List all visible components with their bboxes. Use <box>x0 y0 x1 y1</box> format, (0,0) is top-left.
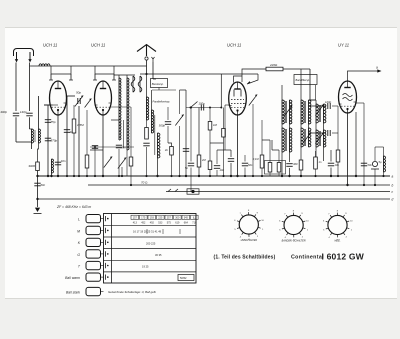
wire x67 drop <box>66 96 68 176</box>
grid wire y105 <box>44 104 50 106</box>
wire from 140p to coil <box>29 117 31 129</box>
bus line b <box>88 184 390 186</box>
switch contact ticks in table column <box>105 216 107 221</box>
tube3 cathode down <box>237 115 239 176</box>
tube1 right pin wire y96 <box>66 95 75 97</box>
capacitor 50n tube3 <box>242 163 248 166</box>
wire x95 down <box>94 147 96 176</box>
tube1 frame right tick <box>69 79 73 81</box>
tube1 frame left drop <box>50 74 52 80</box>
wire x217 down <box>216 170 218 176</box>
band switch lever <box>190 102 198 109</box>
wire y147 right link <box>375 146 384 148</box>
resistor 50k <box>85 155 89 168</box>
wire cap upper right <box>332 105 338 107</box>
junction x186 bus <box>185 175 187 177</box>
antenna plug contacts <box>145 57 155 62</box>
osc top link <box>114 74 135 76</box>
svg-text:10n: 10n <box>61 159 66 163</box>
junction tube1 bus <box>57 175 59 177</box>
wire resistor to bus <box>37 171 39 177</box>
link y150 left <box>90 149 103 151</box>
wire x245 down <box>244 168 246 177</box>
svg-text:1M: 1M <box>213 123 218 127</box>
tube3 triode anode wire <box>234 76 243 83</box>
junction bus x37 <box>36 175 38 177</box>
wire winding5 top <box>315 100 317 104</box>
wire x322 dn <box>330 168 332 177</box>
svg-text:Gezeichnete Schalterlage: U, B: Gezeichnete Schalterlage: U, Ball gelb <box>108 290 156 294</box>
tube U1 UCH11 <box>50 81 67 115</box>
wire x221 from rail <box>220 74 222 108</box>
svg-text:Ball stark: Ball stark <box>66 290 80 294</box>
svg-text:G: G <box>77 253 80 257</box>
svg-text:500p: 500p <box>159 124 166 128</box>
svg-text:UCH 11: UCH 11 <box>227 43 241 48</box>
capacitor 10n tube1 cathode <box>55 162 61 165</box>
tube1 frame right drop <box>70 74 72 80</box>
wire L3 top <box>118 75 120 78</box>
tube3 anode to 220 resistor <box>242 69 266 82</box>
coil core line <box>34 130 36 142</box>
wire x338 v <box>337 133 339 150</box>
coupling coil loops right <box>138 76 142 92</box>
junction x199 bus <box>198 175 200 177</box>
IF transformer winding 6 <box>316 130 326 147</box>
tube2 pin stub y120 <box>111 119 119 121</box>
wire x315 up <box>315 85 317 100</box>
wire x210 v2 <box>209 130 211 161</box>
wire cap upper left <box>309 105 327 107</box>
svg-text:70 Ω: 70 Ω <box>141 181 148 185</box>
svg-text:300: 300 <box>175 217 180 220</box>
wire osc coil down <box>118 149 120 176</box>
agc link y150 <box>217 149 231 151</box>
tube U2 UCH11 <box>95 81 112 115</box>
resistor damping <box>145 128 149 140</box>
rotary switch HEIZ. <box>326 213 350 238</box>
wire x210 v1 <box>209 108 211 122</box>
electrolytic capacitor 5u <box>371 161 379 169</box>
wire x131 down <box>130 107 132 185</box>
svg-text:345: 345 <box>184 217 189 220</box>
wire x223 down <box>223 137 225 176</box>
svg-text:575: 575 <box>167 221 172 224</box>
wire x322 up <box>330 150 332 162</box>
tube2 frame left tick <box>93 79 97 81</box>
svg-text:400p: 400p <box>0 110 7 114</box>
wire x122 down <box>121 167 123 176</box>
svg-text:619: 619 <box>175 221 180 224</box>
wire x179 up <box>179 90 181 114</box>
junction x231 bus <box>230 175 232 177</box>
push button Ball warm <box>86 273 101 281</box>
push button K <box>86 238 101 246</box>
RF choke on rail <box>39 64 50 66</box>
wire x223 up <box>223 108 225 129</box>
resistor osc grid <box>129 157 133 166</box>
row2 tick b <box>162 229 164 234</box>
wire x253 down <box>252 104 254 176</box>
button Ball warm link wire <box>101 276 104 278</box>
junction x253 bus <box>252 175 254 177</box>
wire x291 down <box>289 152 291 162</box>
junction tube2 bus <box>102 175 104 177</box>
junction x95 y147 <box>94 146 96 148</box>
svg-text:Parallelkreissp.: Parallelkreissp. <box>153 100 171 104</box>
wire choke up <box>383 147 385 156</box>
wire x262 up <box>261 120 263 155</box>
capacitor 400p <box>13 113 19 116</box>
svg-text:(L): (L) <box>193 217 196 220</box>
capacitor IF foot <box>286 164 292 167</box>
wire IF3 top <box>300 69 302 100</box>
junction x315 bus <box>314 175 316 177</box>
tube4 right pin wire <box>357 102 365 104</box>
capacitor 100p switch <box>201 105 203 111</box>
IF trimmer 2 <box>302 134 310 145</box>
junction x221 y107 <box>220 107 222 109</box>
svg-text:a: a <box>392 175 394 179</box>
junction x122 bus <box>121 175 123 177</box>
table row line 1 <box>104 224 197 226</box>
svg-text:M: M <box>77 229 80 233</box>
switch contacts on bus c <box>168 189 178 192</box>
junction x291 bus <box>288 175 290 177</box>
wire x146 down <box>146 147 148 176</box>
svg-text:5μ: 5μ <box>379 160 383 164</box>
resistor 0,1M <box>260 155 264 168</box>
table row line 2 <box>104 236 197 238</box>
capacitor 10n agc <box>214 166 220 169</box>
junction tube3 bus <box>236 175 238 177</box>
table row line 3 <box>104 248 197 250</box>
wire L2 bottom to bus <box>38 143 39 162</box>
svg-text:I 6012 GW: I 6012 GW <box>322 252 365 262</box>
wire x272 v <box>271 140 273 150</box>
wire from 400p down <box>15 117 17 142</box>
table divider <box>111 214 113 284</box>
wire x87 down <box>86 168 88 176</box>
svg-text:452: 452 <box>141 221 146 224</box>
antenna coil L2 <box>39 129 41 143</box>
tube1 frame left tick <box>49 79 53 81</box>
svg-text:300: 300 <box>293 162 298 166</box>
wire IF1a mid <box>281 124 283 128</box>
svg-text:3000: 3000 <box>28 164 35 168</box>
IF transformer winding 1 <box>282 100 292 124</box>
wire x171 down <box>171 155 173 176</box>
variable capacitor padder <box>118 158 126 169</box>
wire L6 up <box>151 90 153 110</box>
wire x279 up <box>278 150 280 163</box>
coupling coil loops left <box>131 76 135 92</box>
resistor 10k <box>222 129 226 138</box>
rail left hook <box>30 65 32 67</box>
svg-text:UMSCHALTER: UMSCHALTER <box>241 239 258 242</box>
antenna lead wire left <box>15 63 17 112</box>
svg-text:10n: 10n <box>220 168 225 172</box>
junction x245 bus <box>244 175 246 177</box>
tuning coil L5 <box>147 97 149 120</box>
wire L4 top <box>126 75 128 78</box>
wire x168-link <box>167 126 169 143</box>
resistor in box 2 <box>277 163 281 173</box>
junction x119 bus <box>118 175 120 177</box>
wire cap lower left <box>309 132 327 134</box>
resistor 1,5M <box>72 119 76 133</box>
junction x95 bus <box>94 175 96 177</box>
tube1 cathode wire down <box>57 115 59 176</box>
arrow terminal a <box>377 69 381 72</box>
wire y69 to IF <box>283 68 310 70</box>
wire tube1 grid left link <box>44 104 50 106</box>
variable capacitor osc trim <box>249 95 257 106</box>
link y150 <box>272 149 279 151</box>
junction x146 bus <box>145 175 147 177</box>
svg-text:5n: 5n <box>185 166 189 170</box>
wire L4 down <box>126 150 128 176</box>
svg-text:533: 533 <box>158 221 163 224</box>
tube1 left pin wire <box>50 104 58 106</box>
capacitor 200p band <box>183 149 189 152</box>
svg-text:4n: 4n <box>165 148 169 152</box>
svg-text:UCH 11: UCH 11 <box>43 43 57 48</box>
wire winding6 down <box>315 147 317 157</box>
wire x231 up <box>230 150 232 157</box>
wire x168 v <box>167 107 169 120</box>
tube2 right pin wire y107 <box>111 106 131 108</box>
IF transformer winding 5 <box>316 104 326 123</box>
capacitor 120p upper <box>328 103 330 109</box>
capacitor 50n ground <box>34 183 40 186</box>
svg-text:ZF = 468 KHz = 643 m: ZF = 468 KHz = 643 m <box>56 205 91 209</box>
ground symbol <box>34 208 42 214</box>
tube1 anode top frame <box>51 66 71 74</box>
wire x310 down to IF <box>309 69 311 100</box>
junction x87 bus <box>86 175 88 177</box>
tube2 cathode wire <box>102 115 104 176</box>
junction x262 bus <box>261 175 263 177</box>
IF trimmer 1 <box>284 106 292 117</box>
capacitor 10n right <box>328 163 334 166</box>
svg-text:50p: 50p <box>76 91 81 95</box>
IF transformer winding 4 <box>301 128 311 147</box>
oscillator switch arrow at tube3 <box>247 81 251 84</box>
wire x199 up <box>198 108 200 156</box>
junction x322 bus <box>330 175 332 177</box>
svg-text:Blendersp.: Blendersp. <box>152 83 164 86</box>
wire x338 tube4 left <box>337 106 339 133</box>
junction x179 bus <box>178 175 180 177</box>
junction x210 y107 <box>209 107 211 109</box>
wire x87 up <box>86 110 88 155</box>
wire x356 v <box>355 112 357 176</box>
wave band coil L6 <box>152 110 154 133</box>
capacitor 140p <box>26 113 32 116</box>
row2 tick a <box>146 229 148 234</box>
push button M <box>86 226 101 234</box>
decoupling box <box>265 161 286 175</box>
svg-text:157: 157 <box>133 217 138 220</box>
variable capacitor osc <box>104 157 112 168</box>
button Ball stark link wire <box>101 291 104 293</box>
tube4 cathode down <box>347 113 349 185</box>
resistor 50k grid <box>208 161 212 170</box>
wire x217 up <box>216 150 218 164</box>
link y90 <box>152 89 176 91</box>
junction x338 bus <box>337 175 339 177</box>
junction x285 bus <box>281 175 283 177</box>
wire IF2 top <box>289 124 291 128</box>
svg-text:HEIZ.: HEIZ. <box>334 240 340 243</box>
rotary switch BANDBR.-SCHALTER <box>282 213 306 238</box>
resistor 2M <box>197 155 201 167</box>
table row line 4 <box>104 259 197 261</box>
tube U4 UY11 rectifier <box>339 81 357 113</box>
resistor 1M <box>208 122 212 131</box>
wire L7 down <box>157 158 159 176</box>
roof antenna symbol <box>137 45 156 57</box>
junction tube4 b <box>346 184 348 186</box>
wire x168 to padder <box>168 143 172 147</box>
wire cap lower right <box>332 132 338 134</box>
svg-text:225: 225 <box>158 217 163 220</box>
padder box 4n <box>170 147 174 156</box>
svg-text:16 17 19 20 25 31 41 49: 16 17 19 20 25 31 41 49 <box>133 230 162 234</box>
junction bus x51 <box>50 175 52 177</box>
junction bus x48 <box>47 175 49 177</box>
resistor 220 <box>266 67 283 71</box>
tube2 frame right tick <box>112 79 116 81</box>
junction x210 bus <box>209 175 211 177</box>
button L link wire <box>101 218 104 220</box>
junction ground d <box>36 198 38 200</box>
resistor in box 1 <box>268 163 272 173</box>
resistor 1n foot <box>314 157 318 169</box>
wire x315 mid <box>315 151 317 157</box>
svg-text:Bandfiltersp.: Bandfiltersp. <box>296 78 311 82</box>
dial table frame <box>104 214 197 284</box>
svg-text:Ball warm: Ball warm <box>65 276 80 280</box>
svg-text:664: 664 <box>184 221 189 224</box>
oscillator coil L4 <box>127 78 129 150</box>
wire coil-res <box>146 120 148 128</box>
IF trimmer 4 <box>315 133 323 144</box>
variable capacitor main tuning <box>175 115 183 126</box>
wire IF1a top <box>281 85 283 100</box>
wire coil to bus <box>51 173 53 176</box>
svg-text:50n: 50n <box>248 163 253 167</box>
cathode coil <box>52 159 54 173</box>
button M link wire <box>101 229 104 231</box>
wire x315 dn <box>315 169 317 176</box>
svg-text:50/52: 50/52 <box>180 276 187 280</box>
resistor heater <box>336 150 340 162</box>
capacitor 100p <box>64 130 70 133</box>
junction x191 y107 <box>190 107 192 109</box>
wire x323 v <box>323 123 325 130</box>
svg-text:257: 257 <box>167 217 172 220</box>
wire x338 dn <box>337 162 339 176</box>
IF trimmer 3 <box>315 105 323 116</box>
filter choke <box>384 156 386 172</box>
link y140 <box>262 139 270 141</box>
svg-text:120p: 120p <box>325 100 332 104</box>
push button L <box>86 215 101 223</box>
wire x191 up <box>190 107 192 162</box>
wire x279 dn <box>278 172 280 176</box>
wire x199 dn <box>198 167 200 176</box>
capacitor 120p lower <box>328 130 330 136</box>
wire plug right jog <box>153 78 156 80</box>
wire box down <box>158 88 160 91</box>
svg-text:100p: 100p <box>199 102 206 106</box>
IF transformer winding 3 <box>301 100 311 124</box>
svg-text:(1. Teil des Schaltbildes): (1. Teil des Schaltbildes) <box>214 255 276 261</box>
resistor 3000 <box>36 162 40 171</box>
svg-text:b: b <box>392 184 394 188</box>
wire IF top link <box>309 99 316 101</box>
antenna coil L1 <box>32 129 34 143</box>
bus line a <box>38 175 391 177</box>
svg-text:200 225: 200 225 <box>146 242 156 246</box>
push button Ball stark <box>86 287 101 295</box>
junction x171 bus <box>170 175 172 177</box>
junction x364 b <box>363 184 365 186</box>
junction plug-rail <box>145 73 147 75</box>
wire winding5 link <box>309 99 317 101</box>
svg-text:570p: 570p <box>51 139 58 143</box>
tube3 left pin wire <box>225 104 229 106</box>
wire IF3 link <box>300 124 302 128</box>
bus line d <box>38 198 391 200</box>
svg-text:50n: 50n <box>368 163 373 167</box>
wave band coil L7 <box>158 133 160 158</box>
capacitor 5n <box>188 163 194 166</box>
tube2 anode top frame <box>95 66 114 74</box>
svg-text:d: d <box>392 198 394 202</box>
svg-text:a: a <box>376 66 378 70</box>
svg-text:0,1M: 0,1M <box>253 157 260 161</box>
wire jog to coil L1 top <box>30 128 32 130</box>
capacitor 50n rectifier <box>361 163 367 166</box>
wire x245 up <box>244 155 246 162</box>
wire resistor 1,5M down <box>73 133 75 176</box>
dial scale row 1 markings <box>131 215 139 219</box>
svg-text:193: 193 <box>150 217 155 220</box>
junction x131 b <box>130 184 132 186</box>
svg-text:220Ω: 220Ω <box>269 63 278 67</box>
svg-text:UCH 11: UCH 11 <box>91 43 105 48</box>
top rail y66 <box>31 65 147 67</box>
junction x74 bus <box>73 175 75 177</box>
svg-text:BANDBR.-SCHALTER: BANDBR.-SCHALTER <box>282 240 306 243</box>
svg-text:30 35: 30 35 <box>155 253 162 257</box>
tube4 anode wire to arrow a <box>348 71 379 81</box>
wire x191 down <box>190 168 192 192</box>
junction x223 bus <box>222 175 224 177</box>
wire plug right down <box>152 62 154 79</box>
wire resistor 1,5M up <box>73 105 75 119</box>
capacitor 3n <box>228 159 234 162</box>
wire x210 v3 <box>209 170 211 177</box>
coil L6-L7 core <box>154 115 156 155</box>
svg-text:140p: 140p <box>20 110 27 114</box>
junction x356 bus <box>355 175 357 177</box>
table row line 5 <box>104 271 197 273</box>
wire to antenna coil bottom <box>16 141 32 143</box>
